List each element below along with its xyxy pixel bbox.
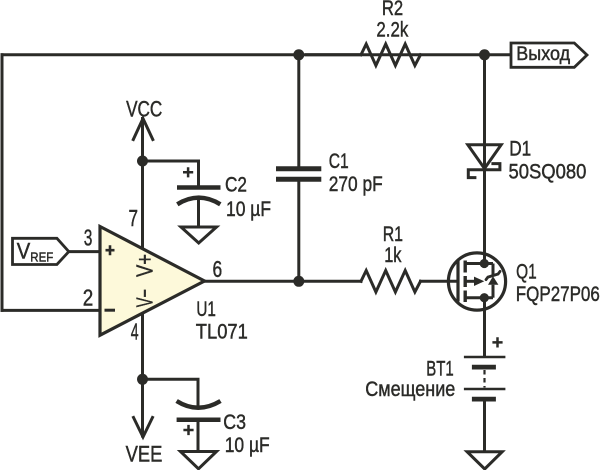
svg-text:REF: REF	[30, 249, 53, 264]
wire C3 to ground	[197, 421, 200, 450]
ground (BT1)	[467, 452, 502, 469]
channel bars	[464, 261, 467, 273]
op-amp U1	[100, 227, 248, 344]
battery BT1	[365, 337, 505, 401]
svg-text:C3: C3	[223, 411, 246, 434]
wire top horizontal (output net)	[2, 53, 511, 56]
body diode branch	[492, 264, 495, 275]
capacitor C2	[177, 167, 271, 221]
wire D1 to Q1 drain	[483, 170, 486, 264]
wire inverting input pin2	[2, 309, 99, 312]
node pin6-C1 junction	[293, 276, 304, 287]
resistor R2	[305, 0, 421, 65]
wire VREF to pin3	[69, 250, 99, 253]
node VCC junction	[137, 156, 148, 167]
svg-text:270 pF: 270 pF	[329, 173, 383, 196]
power VCC	[126, 97, 162, 140]
node VEE junction	[137, 374, 148, 385]
capacitor C1	[276, 150, 383, 196]
internal junction dots	[480, 259, 489, 268]
svg-text:Смещение: Смещение	[365, 378, 455, 401]
svg-text:2: 2	[83, 285, 94, 311]
svg-text:4: 4	[131, 319, 139, 345]
svg-text:10 µF: 10 µF	[226, 198, 271, 221]
ground (C2)	[181, 227, 217, 243]
diode D1 50SQ080	[468, 138, 587, 184]
transistor Q1 FQP27P06	[448, 253, 599, 310]
flag Выход (output)	[511, 43, 587, 67]
body diode cathode bar (tilted)	[486, 271, 500, 279]
node output-D1 junction	[479, 49, 490, 60]
svg-text:VEE: VEE	[126, 442, 163, 467]
body arrow (P-channel)	[465, 280, 475, 283]
wire C1 bottom branch	[297, 182, 300, 282]
ground (C3)	[181, 452, 217, 469]
wire D1 branch vertical	[483, 55, 486, 170]
wire VCC dot to C2	[143, 161, 199, 185]
wire VEE dot to C3	[143, 379, 199, 408]
gate plate	[456, 261, 459, 302]
svg-text:Выход: Выход	[516, 44, 570, 65]
svg-text:7: 7	[129, 205, 139, 231]
wire left feedback vertical	[1, 55, 4, 311]
svg-text:R1: R1	[383, 223, 403, 246]
capacitor C3	[177, 401, 270, 457]
wire pin7 VCC to op-amp	[141, 119, 144, 250]
svg-text:R2: R2	[382, 0, 403, 20]
wire C1 top branch	[297, 55, 300, 167]
svg-text:V−: V−	[132, 289, 158, 307]
svg-text:V: V	[17, 238, 31, 263]
node output-C1 junction	[293, 49, 304, 60]
resistor R1	[361, 223, 421, 292]
svg-text:6: 6	[213, 256, 223, 282]
svg-text:FQP27P06: FQP27P06	[516, 283, 600, 306]
svg-text:C2: C2	[225, 174, 247, 197]
wire pin6 output to R1	[205, 280, 362, 283]
wire Q1 source to battery	[483, 298, 486, 356]
flag VREF	[13, 238, 69, 264]
svg-text:50SQ080: 50SQ080	[509, 160, 587, 183]
drain connection	[465, 262, 493, 265]
svg-text:2.2k: 2.2k	[376, 19, 408, 42]
wire pin4 from op-amp	[141, 315, 144, 436]
source connection	[465, 296, 493, 299]
body diode triangle	[488, 276, 498, 284]
svg-text:Q1: Q1	[516, 261, 537, 284]
svg-text:V+: V+	[132, 254, 158, 277]
power VEE	[126, 418, 163, 467]
svg-text:C1: C1	[329, 150, 349, 173]
wire battery to ground	[483, 400, 486, 450]
svg-text:1k: 1k	[384, 244, 402, 267]
svg-text:TL071: TL071	[196, 320, 248, 343]
svg-text:U1: U1	[196, 298, 216, 321]
svg-text:3: 3	[84, 225, 93, 251]
svg-text:10 µF: 10 µF	[225, 434, 270, 457]
wire R1 to Q1 gate	[421, 280, 457, 283]
wire C2 to ground	[197, 199, 200, 226]
svg-text:D1: D1	[509, 138, 531, 161]
